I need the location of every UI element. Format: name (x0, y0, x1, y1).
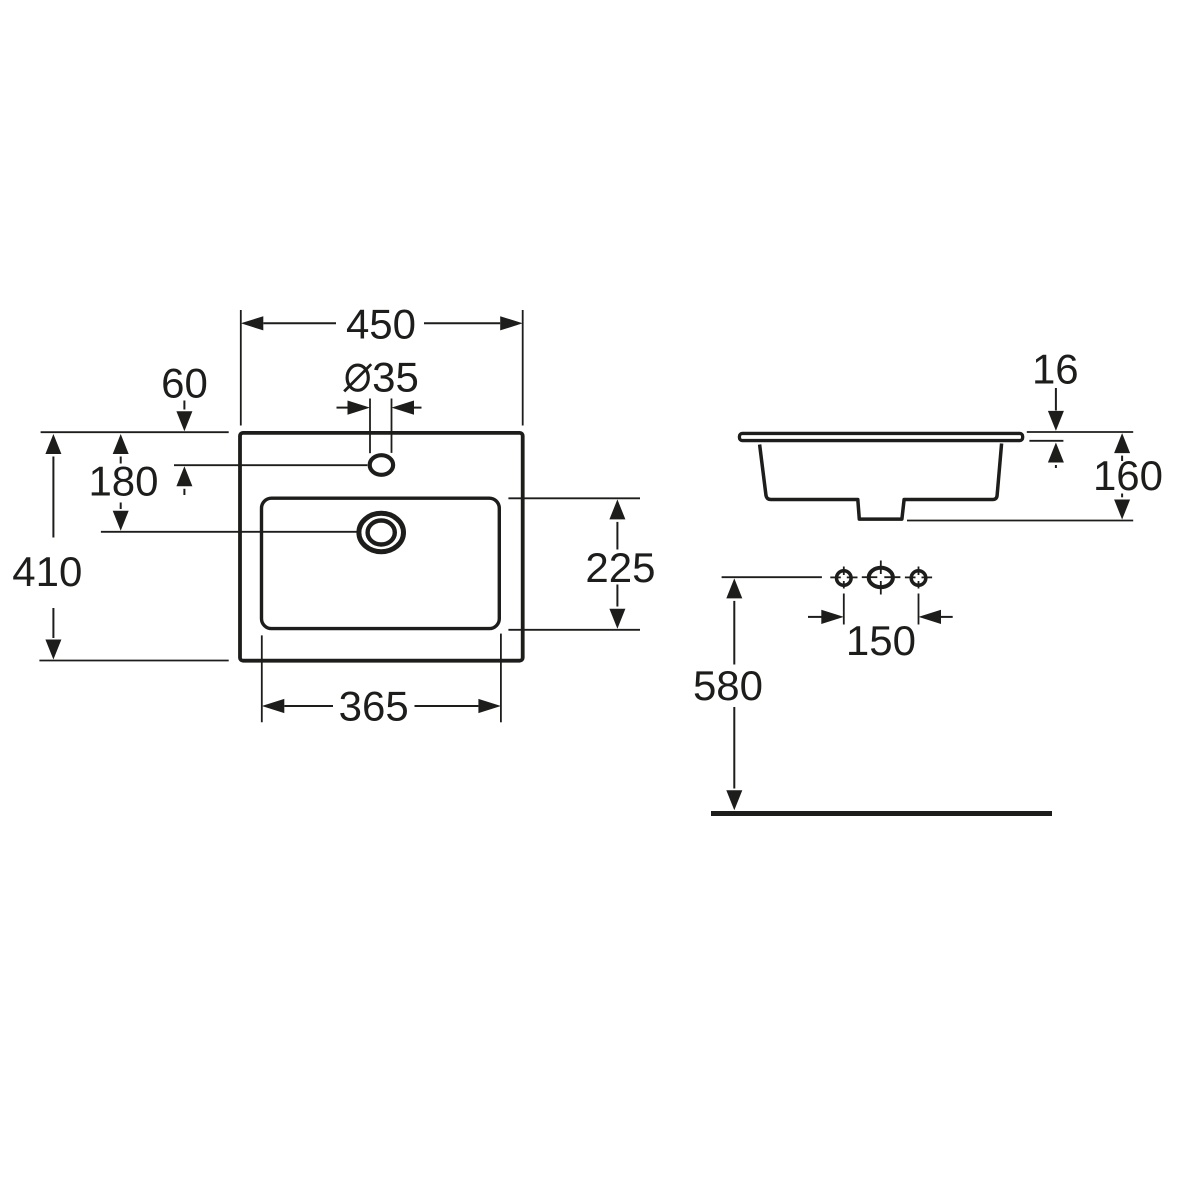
dimension 450: extension lines (240, 310, 242, 426)
svg-text:225: 225 (585, 544, 655, 591)
svg-text:150: 150 (846, 617, 916, 664)
svg-text:580: 580 (693, 662, 763, 709)
floor line (711, 811, 1052, 816)
left fixing hole crosshair (830, 576, 841, 578)
svg-text:16: 16 (1032, 346, 1079, 393)
dimension 160: dimension line with arrows (1114, 433, 1130, 453)
dimension 365: dimension line with arrows (262, 699, 285, 713)
svg-text:160: 160 (1093, 452, 1163, 499)
dimension 180: arrow up to top edge (113, 434, 129, 454)
svg-text:35: 35 (372, 353, 419, 400)
svg-text:60: 60 (161, 360, 208, 407)
dimension 150: arrows outside (808, 616, 822, 618)
inner basin bowl outline (262, 498, 500, 628)
dimension 16: extension lines (1027, 431, 1133, 433)
svg-text:365: 365 (339, 683, 409, 730)
washbasin side view: top rim slab (739, 433, 1022, 440)
svg-text:450: 450 (346, 300, 416, 347)
svg-text:180: 180 (88, 457, 158, 504)
drain hole inner ring (368, 521, 395, 545)
extension line at basin top edge (left) (41, 431, 229, 433)
faucet hole Ø35 (370, 455, 393, 475)
dimension 410: dimension line with arrows (45, 434, 61, 454)
dimension 225: dimension line with arrows (609, 499, 625, 519)
drain hole outer ring (359, 513, 404, 551)
dimension Ø35: extension lines (369, 399, 371, 454)
dimension 150: extension lines below holes (843, 594, 845, 625)
reference line to drain centre (101, 531, 358, 533)
dimension 60: arrow above pointing down to top edge (183, 401, 185, 410)
dimension 180: arrow down to drain line (120, 503, 122, 510)
extension line at basin bottom edge (left) (39, 660, 228, 662)
dimension 225: extension lines (508, 497, 640, 499)
right fixing hole (911, 571, 926, 586)
right fixing hole crosshair (905, 576, 916, 578)
dimension 16: arrow above pointing down (1055, 388, 1057, 411)
centre faucet hole (869, 568, 893, 587)
dimension 16: arrow below pointing up (1048, 443, 1064, 463)
reference line for 580 at faucet hole level (722, 576, 822, 578)
svg-text:410: 410 (12, 548, 82, 595)
left fixing hole (837, 571, 852, 586)
washbasin side view: bowl body with drain stub (760, 444, 1002, 520)
dimension 580: dimension line with arrows (726, 578, 742, 598)
centre faucet hole crosshair (862, 576, 878, 578)
dimension 365: extension lines (261, 635, 263, 722)
reference line to faucet hole centre (174, 464, 367, 466)
dimension 60: arrow below pointing up to faucet line (176, 466, 192, 486)
dimension 450: dimension line with arrows (241, 316, 263, 330)
dimension Ø35: arrows outside (337, 407, 349, 409)
extension line at drain stub bottom (907, 520, 1133, 522)
washbasin top view outer body 450x410 (240, 433, 523, 661)
dimension label Ø35 (347, 365, 368, 390)
